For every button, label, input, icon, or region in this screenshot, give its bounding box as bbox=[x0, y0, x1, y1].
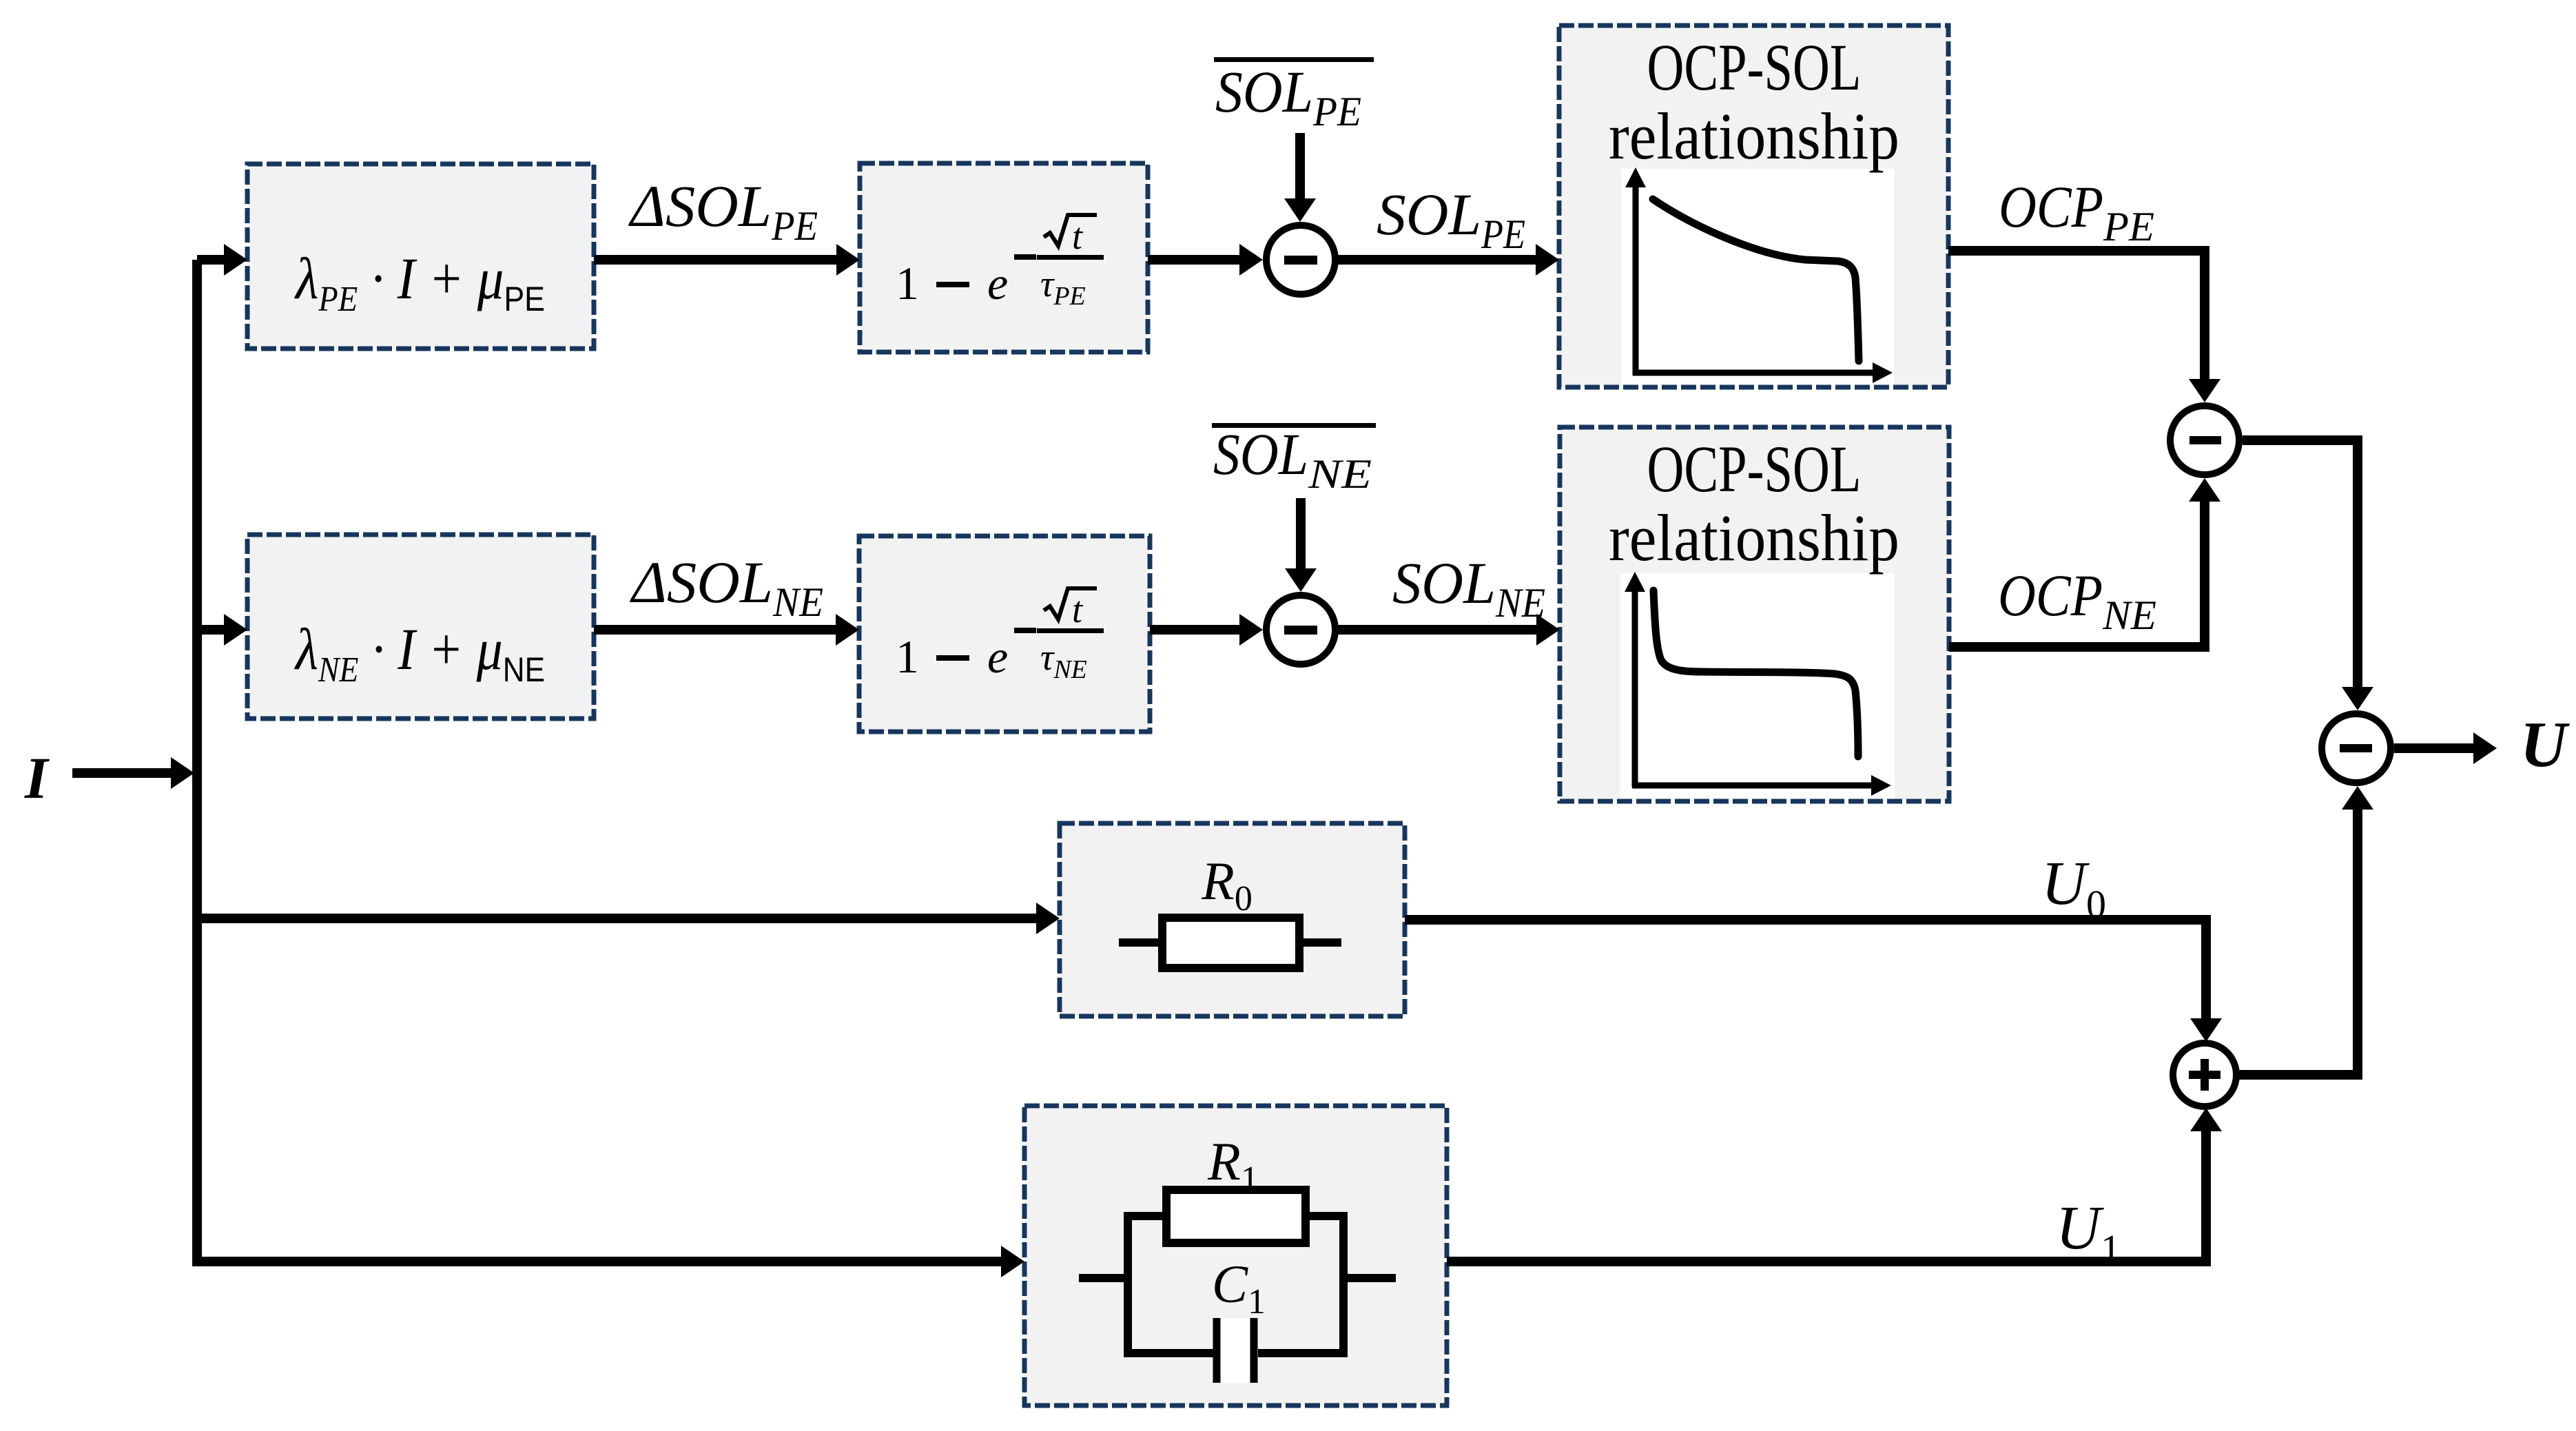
wire stub into B2 with arrowhead bbox=[197, 614, 247, 646]
block B5 plot x-axis bbox=[1633, 362, 1893, 383]
block B3 formula "1 - e^(-sqrt(t)/tau_PE)" bbox=[896, 215, 1104, 311]
block B6 OCP(SOL) curve (NE) bbox=[1653, 590, 1858, 756]
summing junction J5 (plus, U0 + U1) bbox=[2173, 1043, 2236, 1106]
block B2 (lambda_NE * I + mu_NE) box bbox=[247, 535, 594, 719]
wire stub into B1 with arrowhead bbox=[197, 244, 247, 276]
wire SOLbar_NE down into J2 with arrowhead bbox=[1285, 498, 1317, 592]
block B5 plot y-axis bbox=[1625, 167, 1646, 375]
block B1 (lambda_PE * I + mu_PE) box bbox=[247, 164, 594, 349]
RC pair left rail wire bbox=[1124, 1212, 1132, 1357]
summing junction J2 (minus) bbox=[1266, 595, 1335, 664]
trunk wire (I distribution bus, vertical + bottom run) bbox=[197, 260, 1004, 1262]
wire SOLbar_PE down into J1 with arrowhead bbox=[1284, 133, 1316, 222]
output U arrow bbox=[2394, 732, 2497, 764]
wire to resistor R1 left bbox=[1128, 1212, 1166, 1220]
RC pair right lead wire bbox=[1343, 1274, 1396, 1282]
wire branch into R0 block with arrowhead bbox=[197, 903, 1060, 934]
arrowhead into R1C1 block bbox=[1001, 1246, 1024, 1277]
wire from capacitor C1 right bbox=[1258, 1349, 1343, 1357]
input I arrow bbox=[72, 757, 194, 789]
svg-text:I: I bbox=[24, 745, 50, 811]
block B5 dashed border bbox=[1559, 25, 1948, 387]
node label SOLbar_NE (overline + text) bbox=[1212, 421, 1376, 497]
block B5 inner plot area bbox=[1621, 169, 1894, 389]
wire U0 from R0 block to junction J5 with arrowhead bbox=[1405, 920, 2222, 1042]
resistor R0 left lead wire bbox=[1119, 938, 1162, 947]
capacitor C1 dielectric gap (white) bbox=[1220, 1318, 1250, 1383]
block B8 (R1 || C1 RC pair) box bbox=[1024, 1106, 1447, 1406]
RC pair right rail wire bbox=[1339, 1212, 1348, 1357]
summing junction J3 (minus, OCP_PE - OCP_NE) bbox=[2170, 406, 2239, 475]
capacitor C1 right plate bbox=[1250, 1318, 1258, 1383]
wire J3 to junction J4 with arrowhead bbox=[2243, 440, 2373, 710]
wire OCP_NE from B6 to junction J3 with arrowhead bbox=[1949, 478, 2220, 647]
capacitor C1 left plate bbox=[1213, 1318, 1221, 1383]
wire J5 up to junction J4 with arrowhead bbox=[2238, 786, 2373, 1075]
svg-text:OCP-SOL: OCP-SOL bbox=[1647, 432, 1862, 506]
svg-text:e: e bbox=[987, 257, 1008, 309]
wire B1 to B3 with arrowhead bbox=[594, 244, 860, 276]
block B6 OCP-SOL relationship (NE) box fill bbox=[1560, 427, 1949, 801]
wire from resistor R1 right bbox=[1306, 1212, 1343, 1220]
block B4 (1 - e^(-sqrt(t)/tau_NE)) box bbox=[859, 536, 1150, 732]
block B6 inner plot area bbox=[1620, 573, 1895, 800]
block B6 dashed border bbox=[1560, 427, 1949, 801]
block B3 (1 - e^(-sqrt(t)/tau_PE)) box bbox=[860, 163, 1148, 352]
RC pair left lead wire bbox=[1079, 1274, 1128, 1282]
wire J2 to B6 with arrowhead bbox=[1335, 614, 1560, 646]
svg-text:OCP-SOL: OCP-SOL bbox=[1647, 30, 1862, 104]
block B7 (R0 series resistance) box bbox=[1060, 823, 1405, 1016]
svg-text:relationship: relationship bbox=[1609, 501, 1899, 575]
wire B2 to B4 with arrowhead bbox=[594, 614, 859, 646]
resistor R0 right lead wire bbox=[1299, 938, 1341, 947]
svg-text:1: 1 bbox=[896, 257, 919, 309]
svg-text:e: e bbox=[987, 630, 1008, 683]
svg-text:U: U bbox=[2520, 709, 2570, 781]
block B4 formula "1 - e^(-sqrt(t)/tau_NE)" bbox=[896, 588, 1104, 684]
node label SOLbar_PE (overline + text) bbox=[1214, 57, 1374, 134]
wire to capacitor C1 left bbox=[1128, 1349, 1213, 1357]
summing junction J4 (minus, OCV - overpotentials) bbox=[2322, 714, 2391, 783]
wire B4 to junction J2 with arrowhead bbox=[1150, 614, 1263, 646]
svg-text:t: t bbox=[1072, 216, 1084, 257]
wire J1 to B5 with arrowhead bbox=[1335, 244, 1559, 276]
block B5 OCP-SOL relationship (PE) box fill bbox=[1559, 25, 1948, 387]
svg-text:1: 1 bbox=[896, 630, 919, 683]
svg-text:t: t bbox=[1072, 589, 1084, 630]
resistor R0 body bbox=[1162, 918, 1299, 968]
wire B3 to junction J1 with arrowhead bbox=[1148, 244, 1263, 276]
resistor R1 body bbox=[1166, 1190, 1306, 1243]
block B6 plot y-axis bbox=[1625, 572, 1645, 787]
wire U1 from R1C1 block to junction J5 with arrowhead bbox=[1447, 1108, 2222, 1262]
block B6 plot x-axis bbox=[1632, 775, 1891, 796]
block B5 OCP(SOL) curve (PE) bbox=[1653, 199, 1859, 361]
svg-text:relationship: relationship bbox=[1609, 99, 1899, 173]
summing junction J1 (minus) bbox=[1266, 225, 1335, 294]
wire OCP_PE from B5 to junction J3 with arrowhead bbox=[1948, 251, 2220, 402]
